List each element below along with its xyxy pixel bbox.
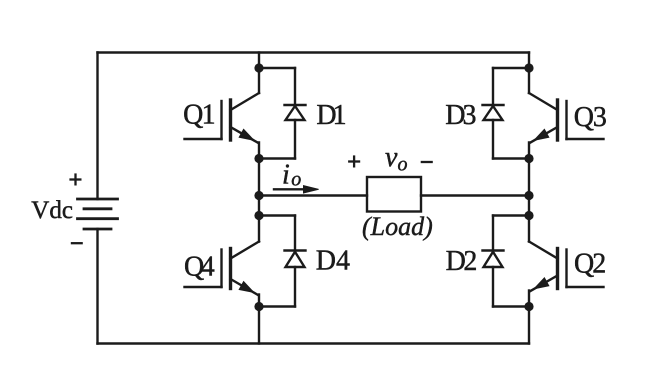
wire D4 branch top — [259, 214, 295, 216]
wire top rail — [98, 51, 530, 53]
node left leg / load junction — [254, 191, 263, 200]
wire left side lower (battery - to bottom rail) — [96, 229, 98, 344]
transistor Q4 (IGBT) — [185, 242, 260, 296]
svg-text:io: io — [282, 160, 301, 191]
node left leg / top rail junction — [254, 63, 263, 72]
wire left leg middle (Q1 emitter node to Q4 collector) — [258, 143, 260, 242]
wire D1 branch top — [259, 67, 295, 69]
wire left side upper (rail to battery +) — [96, 53, 98, 200]
label load - terminal — [421, 161, 433, 163]
wire right leg upper (rail to Q3 collector) — [528, 53, 530, 94]
transistor Q1 (IGBT) — [185, 93, 260, 143]
node left leg / bottom junction — [254, 302, 263, 311]
load box — [367, 177, 421, 212]
wire load right — [421, 194, 529, 196]
svg-text:Q1: Q1 — [183, 100, 215, 131]
diode D4 — [285, 216, 306, 307]
wire D2 branch bottom — [493, 305, 529, 307]
node right leg / load junction — [524, 191, 533, 200]
wire right leg middle (Q3 emitter node to Q2 collector) — [528, 143, 530, 242]
diode D3 — [483, 68, 504, 159]
node right leg / Q2 collector junction — [524, 211, 533, 220]
node left leg / Q1 emitter junction — [254, 154, 263, 163]
svg-text:D2: D2 — [446, 246, 477, 277]
node right leg / bottom junction — [524, 302, 533, 311]
label battery + terminal — [69, 173, 81, 185]
node right leg / top rail junction — [524, 63, 533, 72]
svg-text:(Load): (Load) — [362, 212, 433, 241]
wire D1 branch bottom — [259, 157, 295, 159]
transistor Q2 (IGBT) — [529, 242, 604, 292]
diode D2 — [483, 216, 504, 307]
node left leg / Q4 collector junction — [254, 211, 263, 220]
wire D3 branch top — [493, 67, 529, 69]
svg-text:Q4: Q4 — [184, 251, 215, 282]
svg-text:Q3: Q3 — [574, 102, 606, 133]
diode D1 — [285, 68, 306, 159]
current io arrow — [274, 186, 319, 193]
svg-text:D1: D1 — [316, 100, 345, 131]
wire D4 branch bottom — [259, 305, 295, 307]
node right leg / Q3 emitter junction — [524, 154, 533, 163]
svg-text:Vdc: Vdc — [31, 197, 73, 224]
svg-text:vo: vo — [385, 142, 407, 176]
svg-text:Q2: Q2 — [574, 248, 605, 279]
wire D2 branch top — [493, 214, 529, 216]
wire D3 branch bottom — [493, 157, 529, 159]
wire load left — [259, 194, 367, 196]
wire bottom rail — [98, 342, 530, 344]
svg-text:D4: D4 — [316, 246, 350, 277]
label battery - terminal — [71, 242, 83, 244]
wire left leg upper (rail to Q1 collector) — [258, 53, 260, 94]
svg-text:D3: D3 — [445, 100, 475, 131]
transistor Q3 (IGBT) — [529, 93, 604, 143]
wire left leg lower (Q4 emitter node to bottom rail) — [258, 295, 260, 344]
wire right leg lower (Q2 emitter node to bottom rail) — [528, 291, 530, 344]
battery Vdc — [78, 199, 118, 229]
label load + terminal — [348, 155, 360, 167]
